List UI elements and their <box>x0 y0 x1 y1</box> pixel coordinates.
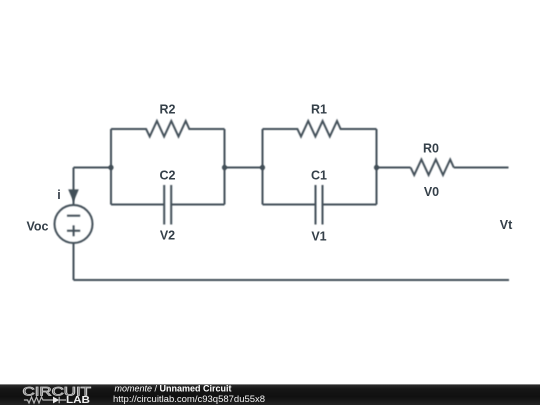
svg-text:V2: V2 <box>160 229 175 243</box>
capacitor C1 <box>263 204 377 206</box>
wire bottom rail <box>74 279 510 281</box>
wire node C to R0 <box>377 167 411 169</box>
resistor R1 <box>263 121 377 137</box>
wire R0 to open terminal <box>454 167 509 169</box>
svg-text:i: i <box>57 188 60 202</box>
svg-text:R2: R2 <box>160 103 176 117</box>
svg-text:momente / Unnamed Circuit: momente / Unnamed Circuit <box>115 383 232 393</box>
svg-text:C1: C1 <box>311 169 327 183</box>
svg-text:V0: V0 <box>424 185 439 199</box>
svg-text:R1: R1 <box>311 103 327 117</box>
svg-text:LAB: LAB <box>66 395 90 405</box>
svg-text:Voc: Voc <box>27 220 49 234</box>
wire source bottom lead <box>73 243 75 280</box>
wire middle link <box>225 167 263 169</box>
wire source top lead <box>73 168 75 206</box>
resistor R2 <box>111 121 225 137</box>
svg-text:C2: C2 <box>160 169 176 183</box>
svg-text:http://circuitlab.com/c93q587d: http://circuitlab.com/c93q587du55x8 <box>113 394 265 405</box>
node A <box>108 165 113 170</box>
svg-text:V1: V1 <box>311 230 326 244</box>
footer bar <box>0 384 540 405</box>
wire R2 box left vertical <box>110 129 112 205</box>
wire R1 box left vertical <box>262 129 264 205</box>
voltage source Voc <box>55 205 93 243</box>
svg-text:Vt: Vt <box>500 218 513 232</box>
current arrow i <box>68 189 79 202</box>
svg-text:R0: R0 <box>423 142 439 156</box>
capacitor C2 <box>111 204 225 206</box>
node D <box>374 165 379 170</box>
node B <box>222 165 227 170</box>
wire R2 box right vertical <box>224 129 226 205</box>
wire R1 box right vertical <box>376 129 378 205</box>
wire source to node A <box>74 167 112 169</box>
resistor R0 <box>411 160 454 176</box>
CircuitLab logo resistor-diode glyph <box>24 397 66 403</box>
node C <box>260 165 265 170</box>
